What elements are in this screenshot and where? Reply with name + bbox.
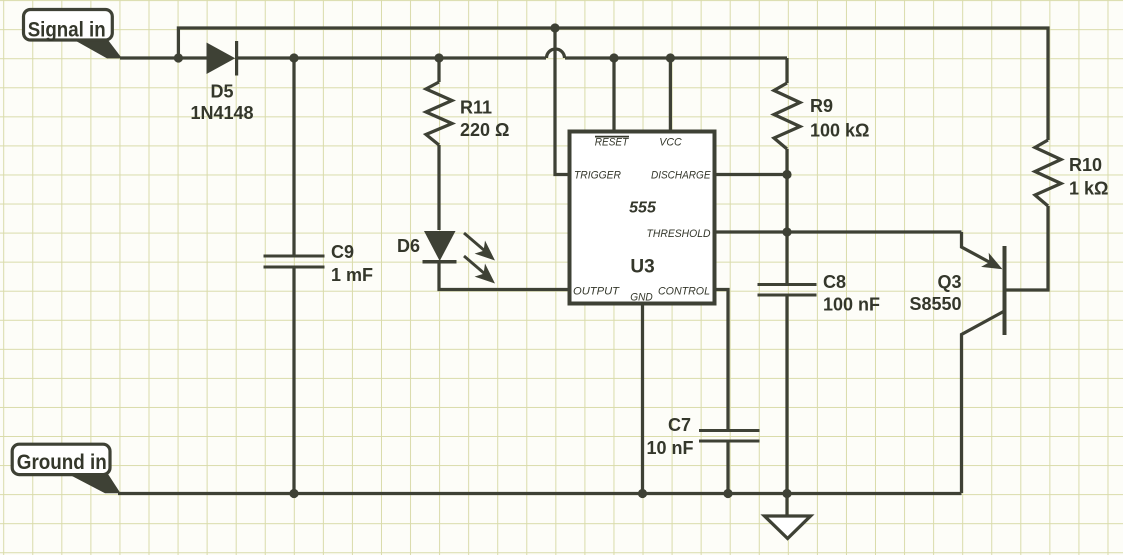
- svg-text:Signal in: Signal in: [28, 18, 106, 41]
- wire: hop over trigger riser: [547, 49, 565, 58]
- junction node RESET drop: [609, 53, 618, 62]
- junction node C8 / ground symbol: [782, 489, 791, 498]
- junction node VCC drop: [666, 53, 675, 62]
- svg-text:220 Ω: 220 Ω: [460, 120, 509, 140]
- wire: R9 bottom lead down to THRESHOLD node: [785, 149, 788, 232]
- wire: R10 bottom lead to Q3 base: [1006, 206, 1048, 290]
- svg-text:CONTROL: CONTROL: [658, 286, 710, 298]
- svg-text:R10: R10: [1069, 155, 1102, 175]
- label C8 100 nF: [823, 272, 880, 315]
- wire: THRESHOLD pin to Q3 emitter: [715, 230, 962, 233]
- svg-text:Q3: Q3: [937, 272, 961, 292]
- diode D5: [207, 41, 237, 76]
- pin RESET: [595, 137, 630, 149]
- wire: Q3 collector to ground rail: [962, 312, 1004, 494]
- label R10 1 kΩ: [1069, 155, 1108, 199]
- wire: C8 upper lead: [785, 232, 788, 284]
- capacitor C7: [699, 431, 760, 442]
- wire: C8 lower lead: [785, 296, 788, 494]
- wire: drop to RESET pin: [612, 58, 615, 132]
- svg-text:Ground in: Ground in: [17, 451, 107, 474]
- wire: riser from signal wire up, top rail, down to R10: [178, 28, 1048, 140]
- junction node DISCHARGE / R9: [782, 170, 791, 179]
- wire: D5 cathode to hop: [237, 56, 546, 59]
- callout Ground in: [12, 444, 120, 493]
- svg-text:D5: D5: [210, 82, 233, 102]
- svg-text:S8550: S8550: [909, 294, 961, 314]
- svg-text:OUTPUT: OUTPUT: [573, 286, 620, 298]
- resistor R11: [426, 82, 452, 145]
- wire: R11 top lead: [437, 58, 440, 82]
- label C7 10 nF: [646, 415, 693, 458]
- wire: DISCHARGE pin to R9 node: [715, 173, 788, 176]
- wire: drop to VCC pin: [669, 58, 672, 132]
- svg-text:C8: C8: [823, 272, 846, 292]
- junction node C7 / ground rail: [723, 489, 732, 498]
- label C9 1 mF: [331, 242, 373, 285]
- svg-text:RESET: RESET: [595, 137, 630, 149]
- svg-text:DISCHARGE: DISCHARGE: [651, 170, 711, 182]
- ground: [765, 494, 811, 539]
- junction node C9 bottom / ground rail: [289, 489, 298, 498]
- svg-text:VCC: VCC: [659, 137, 682, 149]
- svg-text:1 mF: 1 mF: [331, 265, 373, 285]
- transistor Q3: [962, 232, 1005, 335]
- junction node R11 top: [434, 53, 443, 62]
- junction node GND pin / ground rail: [638, 489, 647, 498]
- svg-text:1 kΩ: 1 kΩ: [1069, 179, 1108, 199]
- resistor R10: [1035, 140, 1061, 206]
- svg-text:C7: C7: [668, 415, 691, 435]
- svg-text:R11: R11: [460, 98, 492, 118]
- label R9 100 kΩ: [810, 96, 869, 141]
- svg-text:C9: C9: [331, 242, 354, 262]
- label D5 1N4148: [190, 82, 253, 124]
- svg-text:100 nF: 100 nF: [823, 295, 880, 315]
- resistor R9: [774, 83, 800, 149]
- wire: hop to R9 top: [565, 56, 787, 59]
- wire: GND pin drop: [641, 304, 644, 494]
- capacitor C8: [758, 285, 817, 296]
- svg-text:R9: R9: [810, 96, 833, 116]
- callout Signal in: [24, 10, 123, 59]
- LED D6: [423, 231, 496, 284]
- wire: R11 to D6 anode: [437, 145, 440, 230]
- label Q3 S8550: [909, 272, 961, 314]
- svg-text:1N4148: 1N4148: [190, 103, 253, 123]
- wire: signal-in lead to D5 anode: [120, 56, 207, 59]
- svg-text:10 nF: 10 nF: [646, 438, 693, 458]
- junction node on signal wire at riser: [174, 53, 183, 62]
- svg-text:U3: U3: [630, 257, 654, 278]
- op-amp U3 555 IC body: [570, 132, 715, 304]
- svg-text:100 kΩ: 100 kΩ: [810, 121, 869, 141]
- wire: D6 cathode to OUTPUT pin: [439, 262, 570, 290]
- wire: R9 top lead: [785, 58, 788, 83]
- svg-text:TRIGGER: TRIGGER: [574, 170, 621, 182]
- wire: C7 bottom to ground rail: [726, 442, 729, 494]
- junction node THRESHOLD / C8: [782, 227, 791, 236]
- label R11 220 Ω: [460, 98, 509, 141]
- wire: C9 branch upper: [292, 58, 295, 255]
- capacitor C9: [264, 256, 325, 267]
- wire: C9 branch lower: [292, 269, 295, 494]
- junction node C9 top: [289, 53, 298, 62]
- junction node top rail / trigger riser: [550, 23, 559, 32]
- wire: ground rail: [118, 492, 962, 495]
- wire: top rail drop to TRIGGER pin: [555, 28, 570, 175]
- svg-text:D6: D6: [397, 236, 420, 256]
- svg-text:555: 555: [629, 200, 657, 217]
- svg-text:THRESHOLD: THRESHOLD: [647, 228, 711, 240]
- wire: CONTROL pin to C7 top: [715, 290, 729, 431]
- svg-text:GND: GND: [630, 292, 653, 304]
